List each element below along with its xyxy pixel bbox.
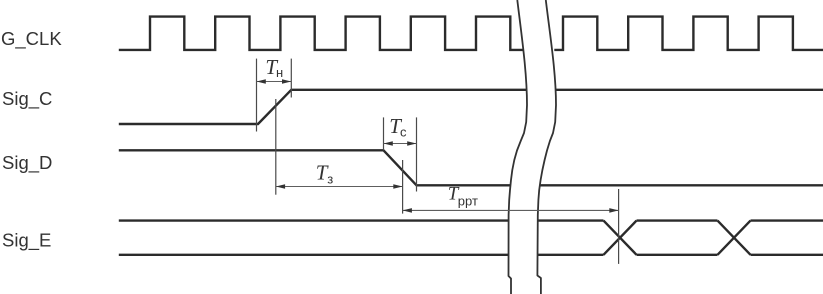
dimension Tc arrow line	[384, 143, 417, 145]
svg-text:Sig_D: Sig_D	[2, 152, 52, 174]
dimension Tppt arrow line	[403, 209, 619, 211]
wire G_CLK clock post-break	[554, 17, 823, 50]
wire Sig_D high and falling transition	[119, 150, 511, 185]
dimension Tz right arrowhead	[393, 184, 402, 189]
wire Sig_E bus top rail left	[119, 219, 509, 221]
node Sig_E crossover 2	[718, 221, 751, 255]
svg-text:Sig_C: Sig_C	[2, 88, 52, 110]
dimension Tppt left arrowhead	[403, 208, 412, 213]
break line left	[509, 0, 528, 294]
wire Sig_C low and rising transition	[119, 90, 527, 124]
dimension Tz arrow line	[276, 186, 403, 188]
dimension Tppt right arrowhead	[609, 208, 618, 213]
wire Sig_D low post-break	[540, 184, 823, 186]
svg-text:с: с	[400, 124, 407, 139]
wire Sig_E bus rails between crossovers	[637, 221, 718, 255]
dimension Tc right tick	[416, 117, 418, 191]
dimension Tz tick	[275, 99, 277, 195]
svg-text:ррт: ррт	[458, 194, 478, 209]
dimension Tz left arrowhead	[276, 184, 285, 189]
dimension Tn right arrowhead	[282, 79, 291, 84]
dimension Tppt right tick	[618, 189, 620, 264]
svg-text:з: з	[327, 172, 333, 187]
dimension Tn left tick	[256, 59, 258, 132]
dimension Tc right arrowhead	[407, 141, 416, 146]
wire Sig_E bus top rail after break	[538, 219, 603, 221]
wire Sig_E bus rails right	[751, 221, 823, 255]
dimension Tn right tick	[290, 59, 292, 98]
svg-text:Sig_E: Sig_E	[2, 229, 51, 251]
dimension Tc left tick	[383, 117, 385, 150]
svg-text:G_CLK: G_CLK	[1, 28, 62, 50]
break line right	[537, 0, 556, 294]
wire Sig_E bus bottom rail left	[119, 254, 508, 256]
dimension Tn left arrowhead	[257, 79, 266, 84]
dimension Tn arrow line	[257, 81, 292, 83]
wire G_CLK clock pre-break	[119, 17, 523, 50]
node Sig_E crossover 1	[604, 221, 637, 255]
wire Sig_E bus bottom rail after break	[538, 254, 604, 256]
dimension Tppt left tick	[402, 160, 404, 214]
wire Sig_C high post-break	[556, 89, 823, 91]
svg-text:н: н	[276, 65, 283, 80]
dimension Tc left arrowhead	[384, 141, 393, 146]
